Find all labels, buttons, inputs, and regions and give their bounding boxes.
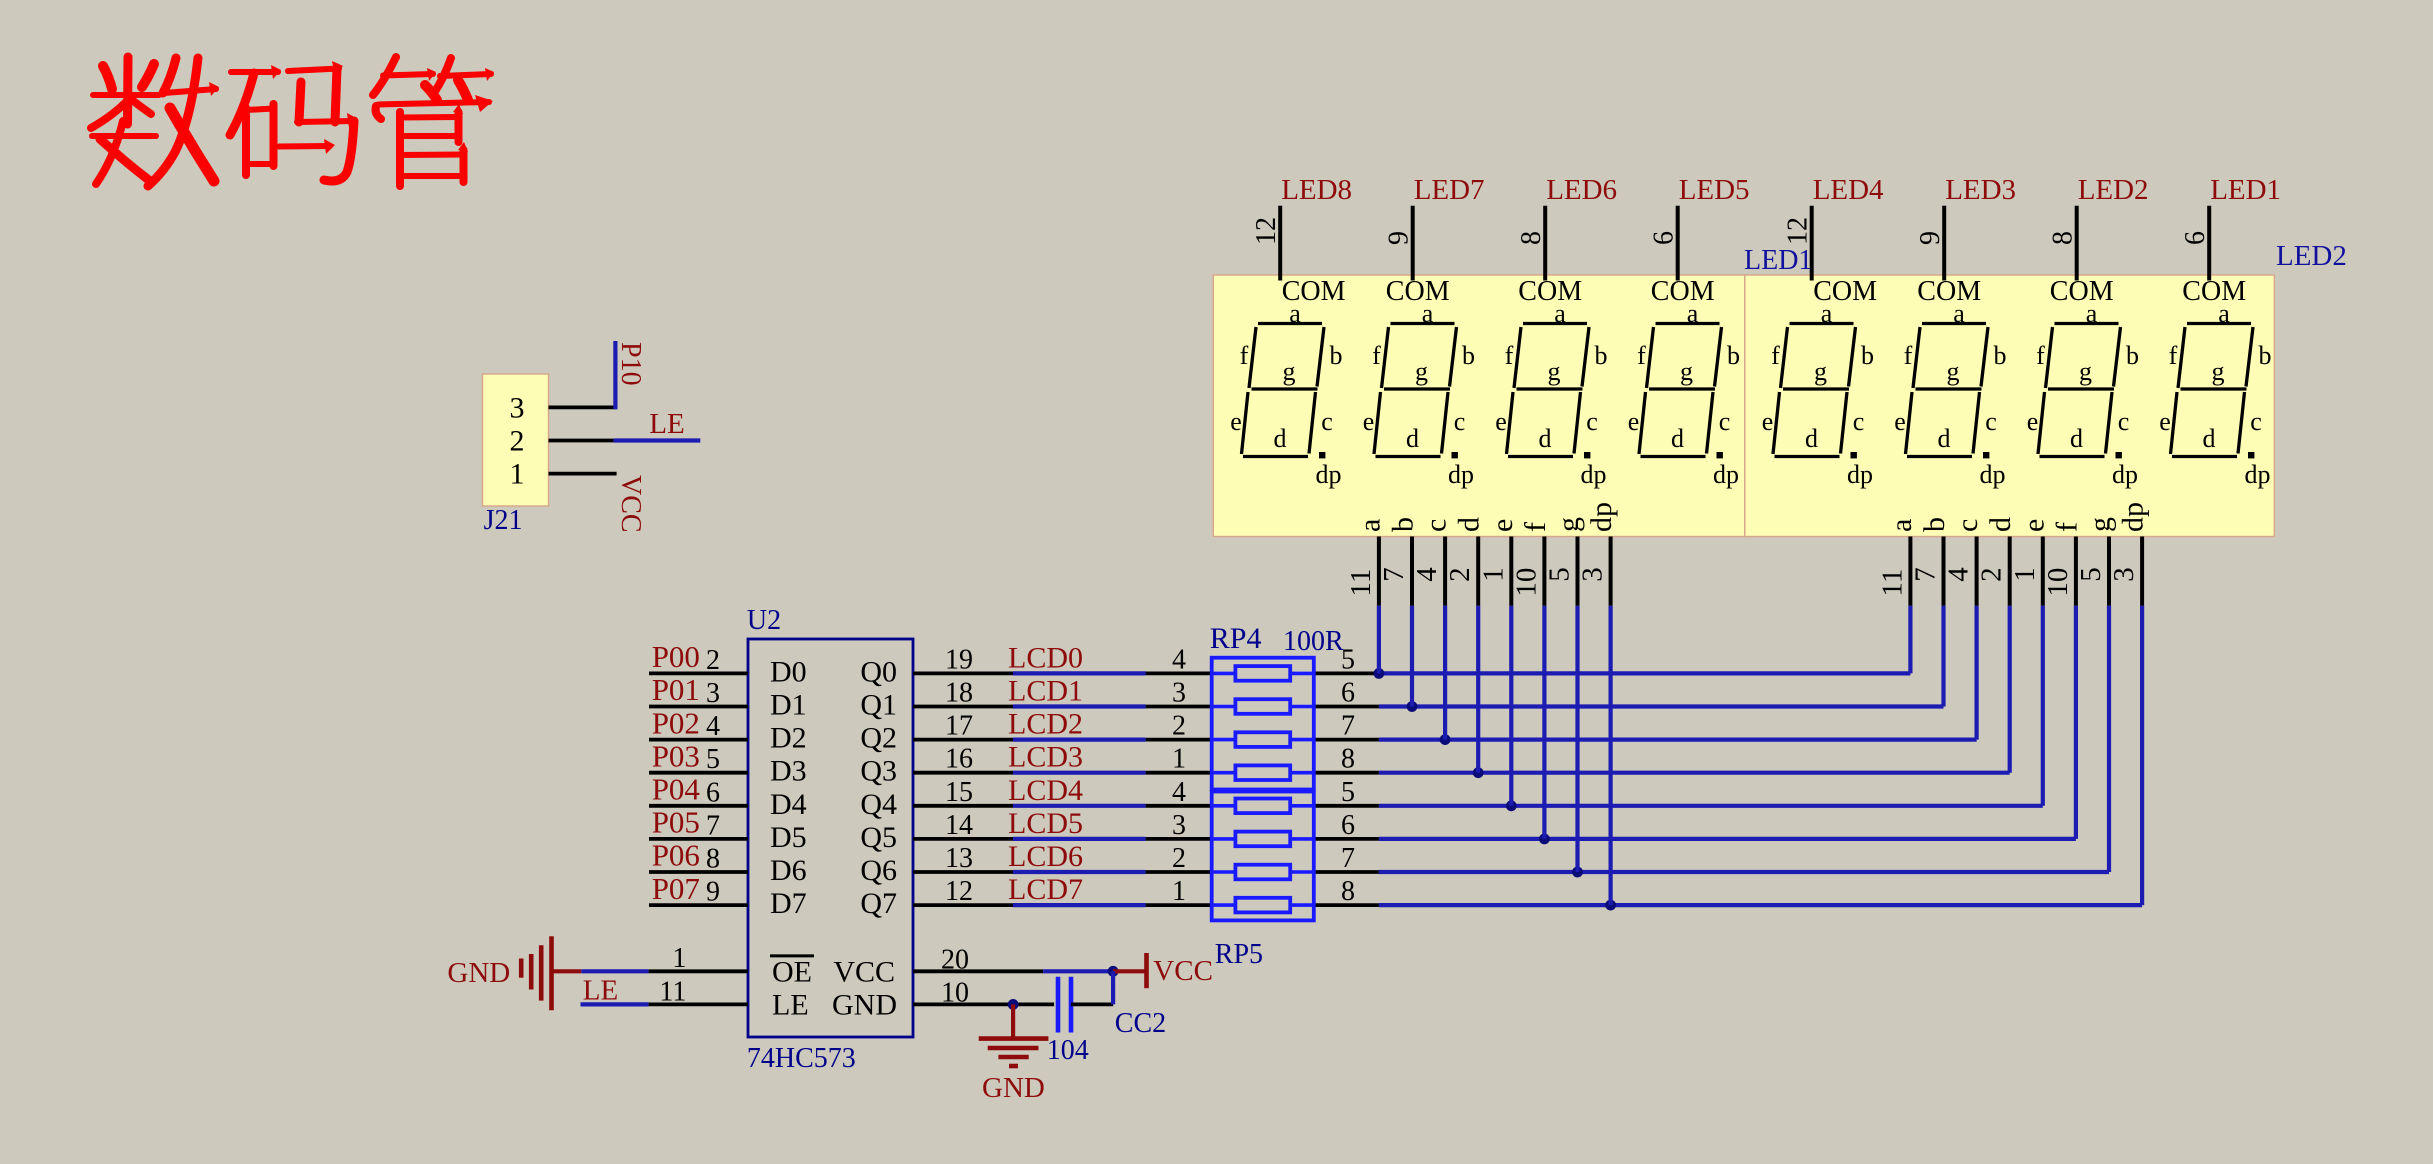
svg-text:VCC: VCC <box>615 475 646 533</box>
7-segment digit 2.2 <box>1894 299 2006 489</box>
svg-text:4: 4 <box>1172 644 1186 675</box>
svg-text:6: 6 <box>706 777 720 808</box>
svg-text:15: 15 <box>945 777 973 808</box>
wire U2 Q0 (black) <box>913 672 1013 676</box>
svg-text:11: 11 <box>1876 569 1908 597</box>
wire P02 to U2 D2 <box>649 738 748 742</box>
svg-text:LE: LE <box>649 408 684 440</box>
svg-text:8: 8 <box>706 844 720 875</box>
wire J21 pin1 VCC (black) <box>549 472 617 476</box>
wire riser block2 pin 5 (blue) <box>2074 606 2078 839</box>
svg-text:3: 3 <box>2108 567 2140 582</box>
wire segment net row 4 (blue horizontal) <box>1379 804 2043 808</box>
wire segment net row 0 (blue horizontal) <box>1379 671 1911 675</box>
svg-text:d: d <box>1671 424 1684 453</box>
svg-text:d: d <box>1453 517 1486 532</box>
svg-text:2: 2 <box>1172 711 1186 742</box>
svg-text:7: 7 <box>1910 567 1942 582</box>
wire RP out row 3 (black) <box>1314 771 1379 775</box>
svg-text:c: c <box>2250 407 2262 436</box>
junction GND node <box>1008 999 1019 1010</box>
svg-text:9: 9 <box>706 877 720 908</box>
svg-text:1: 1 <box>1477 567 1509 582</box>
wire net LCD5 (blue) <box>1013 837 1146 841</box>
wire LE net (blue) <box>581 1002 649 1006</box>
svg-text:2: 2 <box>1172 843 1186 874</box>
svg-text:LED1: LED1 <box>2210 174 2281 206</box>
wire U2 Q5 (black) <box>913 837 1013 841</box>
wire segment pin stub c block 2 (black) <box>1975 537 1979 606</box>
svg-text:e: e <box>1495 407 1507 436</box>
wire segment pin stub e block 1 (black) <box>1509 537 1513 606</box>
svg-text:D5: D5 <box>770 821 807 854</box>
resistor element 6 of RP5 <box>1212 832 1314 847</box>
resistor element 7 of RP5 <box>1212 865 1314 880</box>
svg-text:f: f <box>1240 341 1249 370</box>
wire segment pin stub f block 2 (black) <box>2074 537 2078 606</box>
svg-text:Q7: Q7 <box>860 887 897 920</box>
svg-text:13: 13 <box>945 843 973 874</box>
junction row 5 <box>1539 834 1550 845</box>
svg-text:LED2: LED2 <box>2276 240 2347 272</box>
wire net LE at J21 (blue) <box>614 438 701 442</box>
wire RP out row 6 (black) <box>1314 870 1379 874</box>
wire COM pin of digit 2.1 <box>1810 206 1814 281</box>
svg-text:a: a <box>1554 299 1566 328</box>
resistor element 3 of RP4 <box>1212 732 1314 747</box>
wire J21 pin2 (black) <box>549 439 614 443</box>
svg-text:f: f <box>1904 341 1913 370</box>
svg-text:d: d <box>2203 424 2216 453</box>
svg-text:8: 8 <box>1341 876 1355 907</box>
svg-text:Q3: Q3 <box>860 755 897 788</box>
wire segment pin stub dp block 1 (black) <box>1609 537 1613 606</box>
display LED1 body (left yellow block) <box>1213 275 1745 537</box>
7-segment digit 1.3 <box>1495 299 1607 489</box>
svg-text:f: f <box>2169 341 2178 370</box>
svg-text:d: d <box>1539 424 1552 453</box>
svg-text:4: 4 <box>1172 777 1186 808</box>
svg-text:e: e <box>1486 519 1519 532</box>
wire riser block2 pin 6 (blue) <box>2107 606 2111 872</box>
svg-text:6: 6 <box>2180 231 2211 245</box>
wire GND to OE (red lead) <box>552 969 582 973</box>
svg-text:b: b <box>1727 341 1740 370</box>
svg-text:1: 1 <box>1172 744 1186 775</box>
svg-text:COM: COM <box>2050 276 2114 307</box>
svg-text:4: 4 <box>706 711 720 742</box>
svg-text:P07: P07 <box>652 871 700 906</box>
wire U2 Q6 (black) <box>913 870 1013 874</box>
wire segment pin stub f block 1 (black) <box>1542 537 1546 606</box>
svg-text:dp: dp <box>1847 460 1873 489</box>
svg-text:g: g <box>1814 357 1827 386</box>
svg-text:LED2: LED2 <box>2078 174 2149 206</box>
svg-text:d: d <box>1938 424 1951 453</box>
wire OE net (blue) <box>581 969 648 973</box>
svg-text:d: d <box>1984 517 2017 532</box>
svg-text:GND: GND <box>447 957 510 989</box>
svg-text:c: c <box>1951 519 1984 532</box>
svg-text:D1: D1 <box>770 689 807 722</box>
svg-text:GND: GND <box>832 988 897 1021</box>
wire riser block1 pin 2 (blue) <box>1443 606 1447 740</box>
svg-text:d: d <box>1274 424 1287 453</box>
wire segment pin stub b block 1 (black) <box>1410 537 1414 606</box>
svg-text:COM: COM <box>1917 276 1981 307</box>
svg-text:10: 10 <box>1510 568 1542 597</box>
wire RP out row 0 (black) <box>1314 672 1379 676</box>
svg-text:b: b <box>1387 517 1420 532</box>
svg-text:P00: P00 <box>652 639 700 674</box>
svg-text:6: 6 <box>1649 231 1680 245</box>
svg-text:a: a <box>1289 299 1301 328</box>
svg-text:LE: LE <box>583 974 618 1006</box>
svg-text:5: 5 <box>1341 777 1355 808</box>
wire riser block2 pin 4 (blue) <box>2041 606 2045 806</box>
svg-text:1: 1 <box>672 943 686 974</box>
junction row 7 <box>1605 900 1616 911</box>
svg-text:Q0: Q0 <box>860 655 897 688</box>
svg-text:dp: dp <box>1316 460 1342 489</box>
wire P00 to U2 D0 <box>649 672 748 676</box>
svg-text:14: 14 <box>945 810 973 841</box>
wire VCC riser (blue vertical) <box>1111 971 1115 1004</box>
resistor element 5 of RP5 <box>1212 799 1314 814</box>
svg-text:OE: OE <box>772 955 812 988</box>
connector J21 body <box>483 374 549 506</box>
svg-text:16: 16 <box>945 744 973 775</box>
wire LCD2 to RP (black) <box>1146 738 1212 742</box>
wire RP out row 7 (black) <box>1314 903 1379 907</box>
svg-text:e: e <box>1363 407 1375 436</box>
svg-text:LED6: LED6 <box>1546 174 1617 206</box>
svg-text:LCD7: LCD7 <box>1008 873 1083 906</box>
svg-text:LE: LE <box>772 988 809 1021</box>
wire net LCD4 (blue) <box>1013 804 1146 808</box>
svg-text:12: 12 <box>1251 217 1282 245</box>
svg-text:d: d <box>2070 424 2083 453</box>
wire net LCD1 (blue) <box>1013 704 1146 708</box>
junction row 6 <box>1572 867 1583 878</box>
svg-text:D3: D3 <box>770 755 807 788</box>
resistor element 8 of RP5 <box>1212 898 1314 913</box>
svg-text:LED4: LED4 <box>1813 174 1884 206</box>
svg-text:f: f <box>2036 341 2045 370</box>
svg-text:Q5: Q5 <box>860 821 897 854</box>
svg-text:5: 5 <box>2075 567 2107 582</box>
svg-text:d: d <box>1406 424 1419 453</box>
svg-text:a: a <box>1687 299 1699 328</box>
wire segment pin stub b block 2 (black) <box>1942 537 1946 606</box>
svg-text:3: 3 <box>510 392 525 425</box>
wire U2 VCC pin (blue) <box>1043 969 1113 973</box>
capacitor CC2 plates <box>1056 977 1061 1033</box>
svg-text:12: 12 <box>945 876 973 907</box>
svg-text:7: 7 <box>1341 711 1355 742</box>
svg-text:LCD3: LCD3 <box>1008 741 1083 774</box>
svg-text:7: 7 <box>1378 567 1410 582</box>
svg-text:f: f <box>1372 341 1381 370</box>
wire U2 Q4 (black) <box>913 804 1013 808</box>
wire RP out row 1 (black) <box>1314 705 1379 709</box>
wire segment net row 2 (blue horizontal) <box>1379 737 1977 741</box>
svg-text:f: f <box>1519 522 1552 532</box>
svg-text:LED3: LED3 <box>1945 174 2016 206</box>
svg-text:2: 2 <box>1444 567 1476 582</box>
svg-text:LCD5: LCD5 <box>1008 807 1083 840</box>
wire segment pin stub e block 2 (black) <box>2041 537 2045 606</box>
wire segment net row 5 (blue horizontal) <box>1379 837 2076 841</box>
svg-text:b: b <box>1861 341 1874 370</box>
wire riser block2 pin 7 (blue) <box>2140 606 2144 906</box>
7-segment digit 1.1 <box>1230 299 1342 489</box>
svg-text:COM: COM <box>1651 276 1715 307</box>
wire segment pin stub dp block 2 (black) <box>2140 537 2144 606</box>
svg-text:6: 6 <box>1341 810 1355 841</box>
svg-text:dp: dp <box>1585 502 1618 532</box>
wire LCD6 to RP (black) <box>1146 870 1212 874</box>
wire segment net row 1 (blue horizontal) <box>1379 704 1944 708</box>
svg-text:10: 10 <box>2042 568 2074 597</box>
svg-text:17: 17 <box>945 711 973 742</box>
wire segment pin stub g block 1 (black) <box>1576 537 1580 606</box>
svg-text:c: c <box>1719 407 1731 436</box>
7-segment digit 2.3 <box>2027 299 2139 489</box>
svg-text:e: e <box>1894 407 1906 436</box>
svg-text:e: e <box>2027 407 2039 436</box>
svg-text:VCC: VCC <box>1153 955 1213 987</box>
svg-text:g: g <box>2084 517 2117 532</box>
svg-text:9: 9 <box>1384 231 1415 245</box>
svg-text:g: g <box>2212 357 2225 386</box>
svg-text:a: a <box>1422 299 1434 328</box>
svg-text:7: 7 <box>1341 843 1355 874</box>
svg-text:COM: COM <box>1386 276 1450 307</box>
resistor network RP5 body <box>1212 792 1314 921</box>
resistor network RP4 body <box>1212 658 1314 790</box>
svg-text:1: 1 <box>2009 567 2041 582</box>
wire LCD3 to RP (black) <box>1146 771 1212 775</box>
svg-text:dp: dp <box>1713 460 1739 489</box>
svg-text:LCD4: LCD4 <box>1008 774 1083 807</box>
wire COM pin of digit 1.3 <box>1543 206 1547 281</box>
wire segment pin stub a block 1 (black) <box>1377 537 1381 606</box>
svg-text:Q4: Q4 <box>860 788 897 821</box>
svg-text:2: 2 <box>706 645 720 676</box>
svg-text:U2: U2 <box>747 605 781 636</box>
svg-text:P01: P01 <box>652 672 700 707</box>
junction row 4 <box>1506 800 1517 811</box>
svg-text:dp: dp <box>1448 460 1474 489</box>
svg-text:D6: D6 <box>770 854 807 887</box>
svg-text:dp: dp <box>2245 460 2271 489</box>
svg-text:LCD1: LCD1 <box>1008 675 1083 708</box>
resistor element 2 of RP4 <box>1212 699 1314 714</box>
resistor element 4 of RP4 <box>1212 765 1314 780</box>
svg-text:f: f <box>1637 341 1646 370</box>
svg-text:LED5: LED5 <box>1679 174 1750 206</box>
ground symbol at OE (rotated) <box>521 936 551 1010</box>
svg-text:c: c <box>1853 407 1865 436</box>
wire COM pin of digit 1.2 <box>1411 206 1415 281</box>
svg-text:P05: P05 <box>652 805 700 840</box>
svg-text:b: b <box>1462 341 1475 370</box>
svg-text:LCD2: LCD2 <box>1008 708 1083 741</box>
title text 数码管 (char 3 管) <box>373 57 494 186</box>
wire net LCD0 (blue) <box>1013 671 1146 675</box>
svg-text:RP4: RP4 <box>1210 622 1262 655</box>
svg-text:18: 18 <box>945 678 973 709</box>
wire P03 to U2 D3 <box>649 771 748 775</box>
svg-text:3: 3 <box>706 678 720 709</box>
svg-text:Q1: Q1 <box>860 689 897 722</box>
svg-text:104: 104 <box>1047 1035 1089 1066</box>
svg-text:7: 7 <box>706 810 720 841</box>
wire riser block1 pin 0 (blue) <box>1377 606 1381 674</box>
wire segment pin stub a block 2 (black) <box>1908 537 1912 606</box>
wire P05 to U2 D5 <box>649 837 748 841</box>
svg-text:e: e <box>1230 407 1242 436</box>
svg-text:P04: P04 <box>652 772 701 807</box>
svg-text:dp: dp <box>2112 460 2138 489</box>
wire riser block1 pin 6 (blue) <box>1575 606 1579 872</box>
svg-text:Q2: Q2 <box>860 722 897 755</box>
svg-text:4: 4 <box>1943 567 1975 582</box>
wire COM pin of digit 2.3 <box>2075 206 2079 281</box>
svg-text:5: 5 <box>706 744 720 775</box>
svg-text:e: e <box>2159 407 2171 436</box>
wire LCD5 to RP (black) <box>1146 837 1212 841</box>
svg-text:2: 2 <box>510 425 525 458</box>
svg-text:3: 3 <box>1172 678 1186 709</box>
svg-text:D0: D0 <box>770 655 807 688</box>
svg-text:1: 1 <box>1172 876 1186 907</box>
wire riser block1 pin 4 (blue) <box>1509 606 1513 806</box>
wire segment net row 7 (blue horizontal) <box>1379 903 2142 907</box>
wire segment net row 3 (blue horizontal) <box>1379 771 2010 775</box>
svg-text:a: a <box>1953 299 1965 328</box>
wire riser block1 pin 1 (blue) <box>1410 606 1414 707</box>
wire RP out row 4 (black) <box>1314 804 1379 808</box>
7-segment digit 1.2 <box>1363 299 1475 489</box>
wire segment pin stub c block 1 (black) <box>1443 537 1447 606</box>
wire P06 to U2 D6 <box>649 870 748 874</box>
wire COM pin of digit 1.1 <box>1278 206 1282 281</box>
wire RP out row 2 (black) <box>1314 738 1379 742</box>
svg-text:P06: P06 <box>652 838 700 873</box>
wire net LCD6 (blue) <box>1013 870 1146 874</box>
svg-text:f: f <box>2050 522 2083 532</box>
wire LE net (black) <box>649 1003 748 1007</box>
wire OE net (black) <box>649 969 748 973</box>
svg-text:D4: D4 <box>770 788 807 821</box>
wire RP out row 5 (black) <box>1314 837 1379 841</box>
wire COM pin of digit 1.4 <box>1676 206 1680 281</box>
resistor element 1 of RP4 <box>1212 666 1314 681</box>
wire U2 Q1 (black) <box>913 705 1013 709</box>
wire riser block1 pin 5 (blue) <box>1542 606 1546 839</box>
svg-text:RP5: RP5 <box>1215 939 1263 970</box>
junction row 0 <box>1374 668 1385 679</box>
svg-text:Q6: Q6 <box>860 854 897 887</box>
svg-text:e: e <box>2017 519 2050 532</box>
wire LCD0 to RP (black) <box>1146 672 1212 676</box>
svg-text:g: g <box>1947 357 1960 386</box>
svg-text:c: c <box>1985 407 1997 436</box>
svg-text:8: 8 <box>1516 231 1547 245</box>
svg-text:3: 3 <box>1172 810 1186 841</box>
svg-text:b: b <box>1330 341 1343 370</box>
svg-text:8: 8 <box>2048 231 2079 245</box>
svg-text:12: 12 <box>1783 217 1814 245</box>
svg-text:D7: D7 <box>770 887 807 920</box>
svg-text:d: d <box>1805 424 1818 453</box>
svg-text:b: b <box>1595 341 1608 370</box>
wire segment pin stub d block 1 (black) <box>1476 537 1480 606</box>
svg-text:LED7: LED7 <box>1414 174 1485 206</box>
svg-text:b: b <box>1994 341 2007 370</box>
svg-text:g: g <box>1415 357 1428 386</box>
svg-text:b: b <box>1918 517 1951 532</box>
svg-text:J21: J21 <box>484 505 523 536</box>
title text 数码管 (char 2 码) <box>230 61 358 181</box>
svg-text:74HC573: 74HC573 <box>747 1043 856 1074</box>
svg-text:c: c <box>1321 407 1333 436</box>
svg-text:e: e <box>1628 407 1640 436</box>
wire riser block1 pin 3 (blue) <box>1476 606 1480 773</box>
wire LCD1 to RP (black) <box>1146 705 1212 709</box>
svg-text:b: b <box>2259 341 2272 370</box>
wire cap to VCC riser (black) <box>1071 1003 1113 1007</box>
junction row 3 <box>1473 767 1484 778</box>
display LED2 body (right yellow block) <box>1745 275 2275 537</box>
svg-text:6: 6 <box>1341 678 1355 709</box>
svg-text:c: c <box>1420 519 1453 532</box>
wire net LCD7 (blue) <box>1013 903 1146 907</box>
svg-text:g: g <box>1548 357 1561 386</box>
power symbol VCC (bar) <box>1113 969 1144 973</box>
svg-text:a: a <box>1353 519 1386 532</box>
wire J21 pin3 to P10 (black) <box>549 405 617 409</box>
svg-text:4: 4 <box>1411 567 1443 582</box>
svg-text:c: c <box>2118 407 2130 436</box>
svg-text:e: e <box>1762 407 1774 436</box>
wire P04 to U2 D4 <box>649 804 748 808</box>
svg-text:GND: GND <box>982 1072 1045 1104</box>
wire riser block2 pin 1 (blue) <box>1941 606 1945 707</box>
wire riser block1 pin 7 (blue) <box>1608 606 1612 906</box>
svg-text:LED8: LED8 <box>1281 174 1352 206</box>
op IC U2 74HC573 body <box>748 639 913 1037</box>
svg-text:P10: P10 <box>615 342 646 386</box>
svg-text:8: 8 <box>1341 744 1355 775</box>
wire net LCD3 (blue) <box>1013 771 1146 775</box>
svg-text:19: 19 <box>945 644 973 675</box>
svg-text:2: 2 <box>1976 567 2008 582</box>
wire P07 to U2 D7 <box>649 903 748 907</box>
svg-text:P02: P02 <box>652 705 700 740</box>
svg-text:c: c <box>1454 407 1466 436</box>
title text 数码管 (char 1 数) <box>91 57 219 186</box>
7-segment digit 1.4 <box>1628 299 1740 489</box>
svg-text:11: 11 <box>1345 569 1377 597</box>
wire segment pin stub g block 2 (black) <box>2107 537 2111 606</box>
svg-text:LED1: LED1 <box>1744 245 1812 276</box>
ground symbol at U2 GND <box>979 1004 1049 1066</box>
wire LCD7 to RP (black) <box>1146 903 1212 907</box>
junction VCC node <box>1108 966 1119 977</box>
